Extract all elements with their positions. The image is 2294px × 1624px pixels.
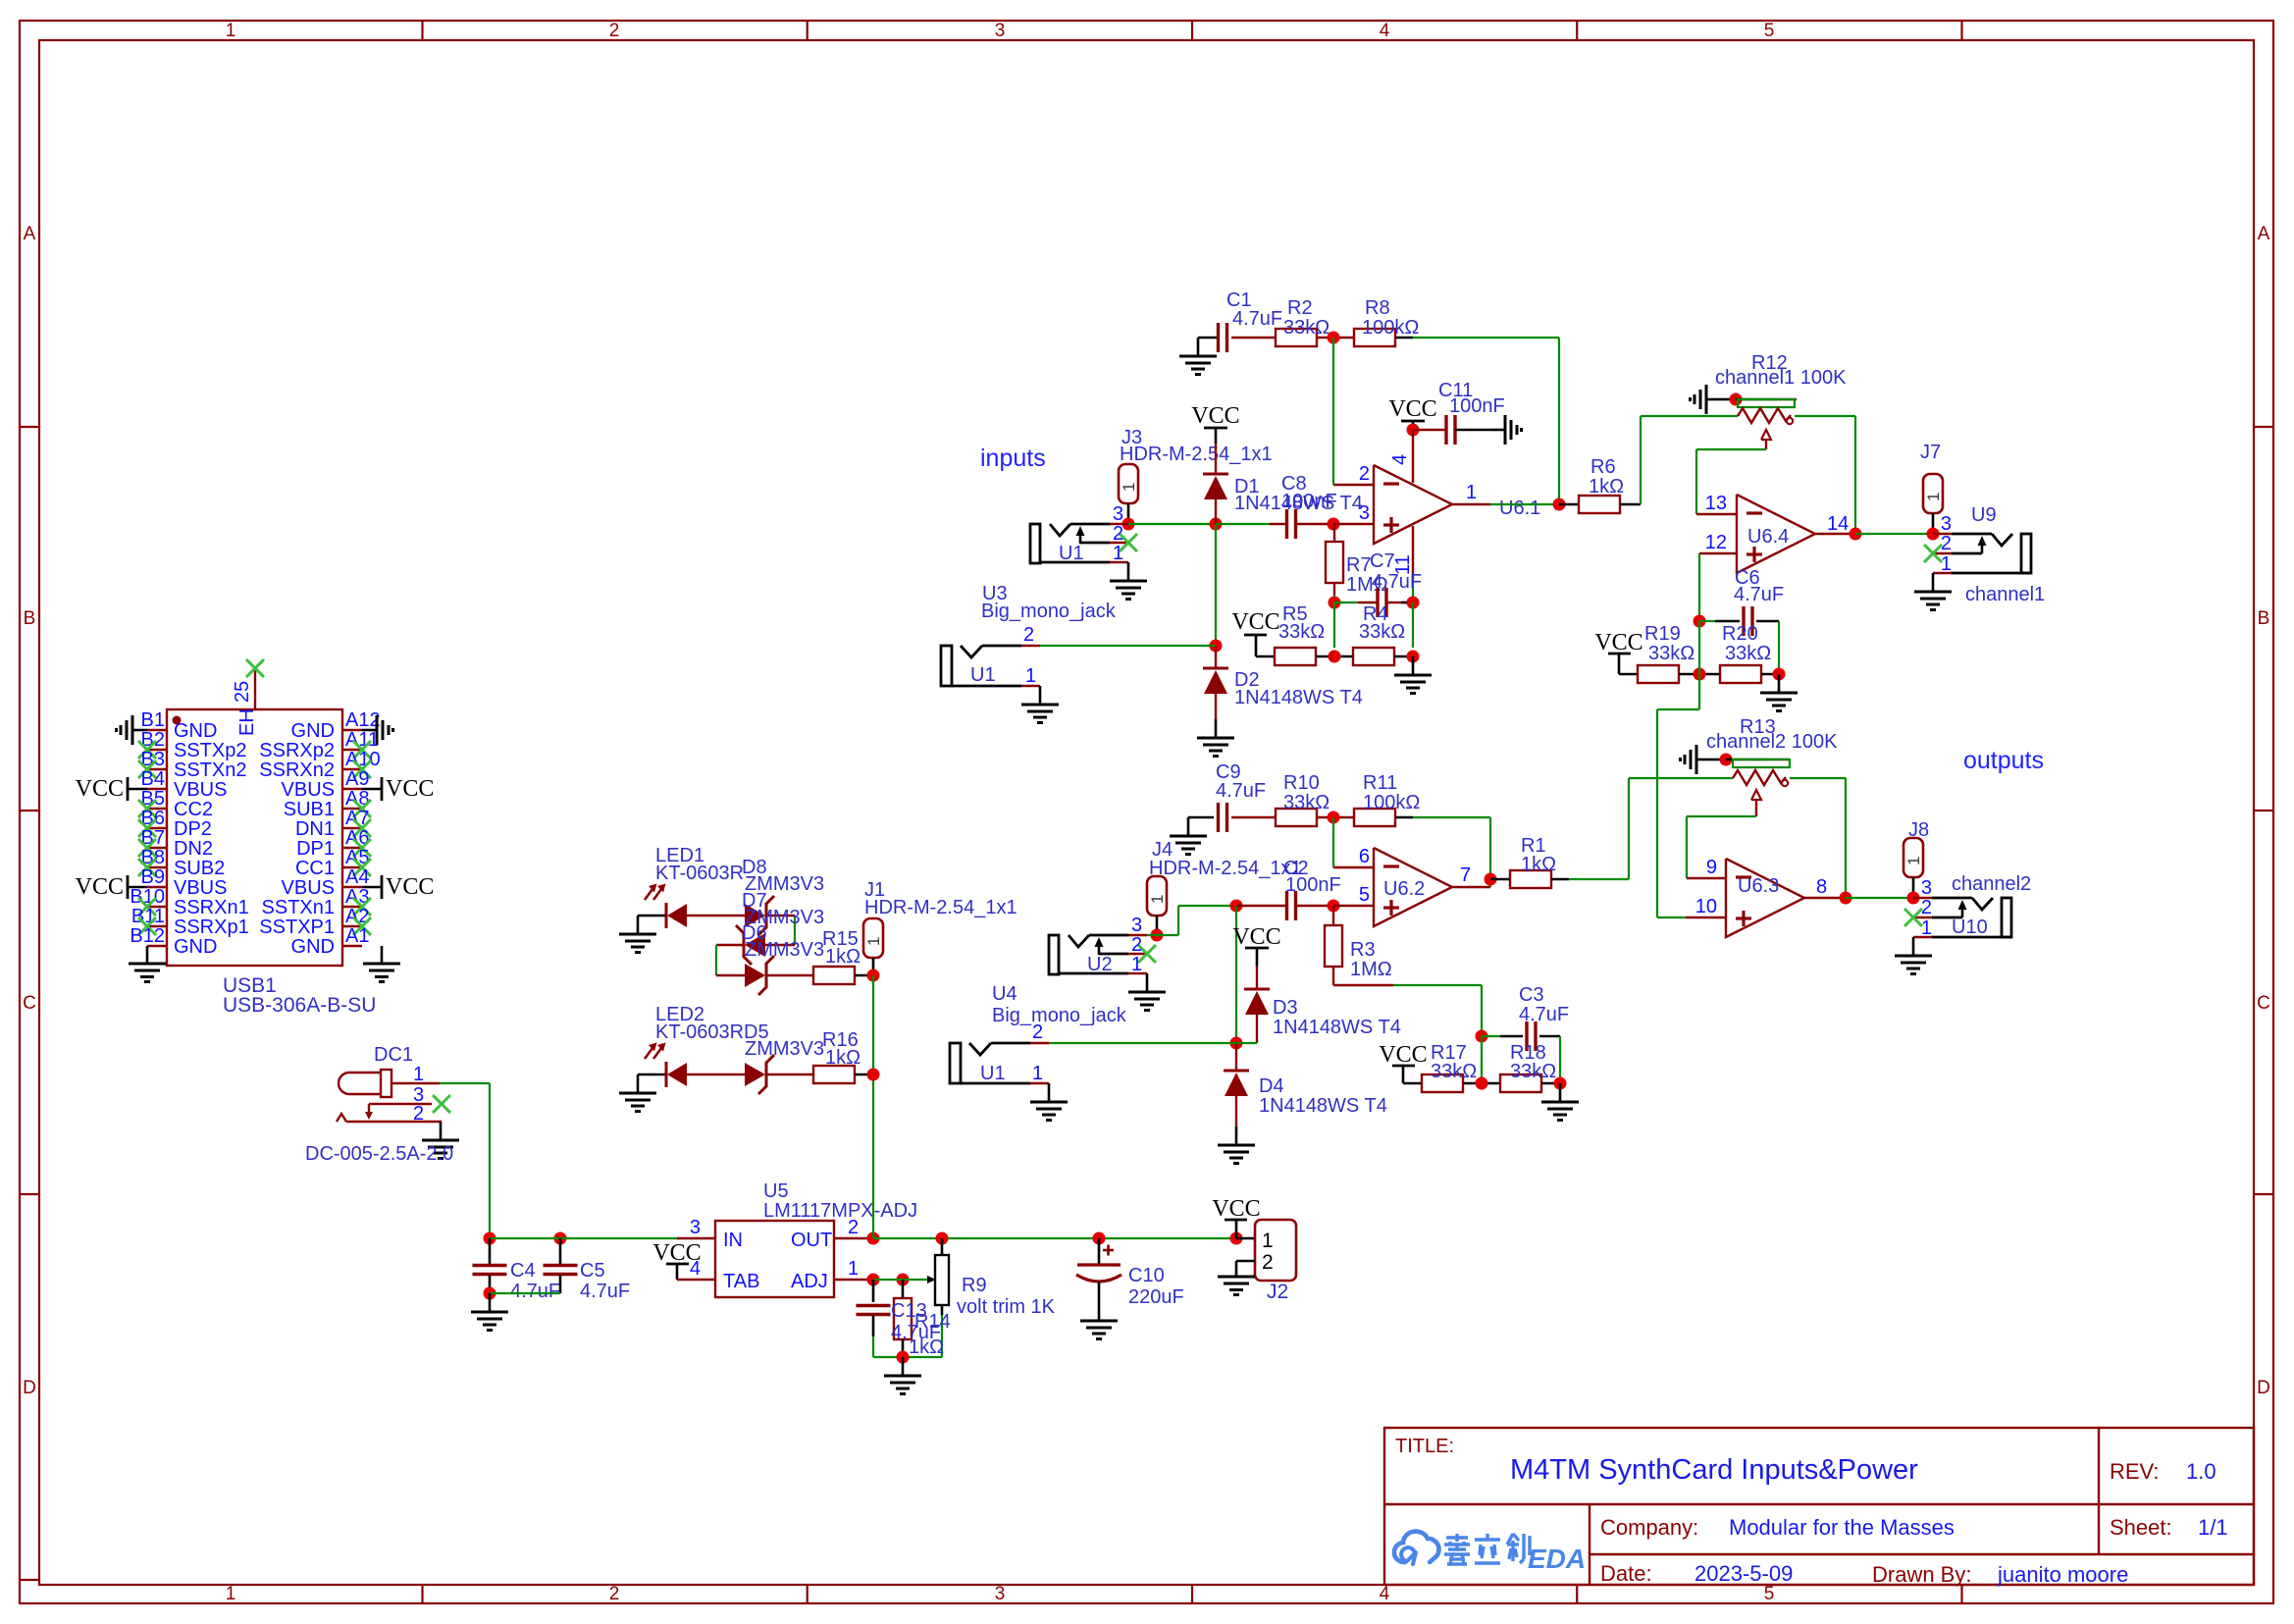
USB1 pin A9 VBUS [342, 788, 362, 790]
svg-text:3: 3 [1941, 513, 1952, 535]
svg-text:ZMM3V3: ZMM3V3 [745, 1038, 824, 1060]
column ticks top/bottom [421, 21, 423, 40]
node C4 bottom junction [484, 1287, 496, 1300]
U6.3 pin10 wire [1657, 917, 1686, 918]
svg-text:KT-0603R: KT-0603R [655, 1022, 744, 1043]
LED LED2 [638, 1074, 666, 1076]
IC U5 LM1117MPX-ADJ body [715, 1221, 834, 1297]
wire J1 bus down [872, 975, 874, 1238]
resistor R18 [1500, 1074, 1541, 1092]
USB1 pin A11 SSRXp2 [342, 749, 362, 751]
node J2 junction [1230, 1232, 1243, 1245]
svg-text:4.7uF: 4.7uF [1519, 1004, 1569, 1025]
svg-text:4.7uF: 4.7uF [1734, 584, 1784, 605]
node C10 junction [1093, 1232, 1106, 1245]
svg-text:U6.1: U6.1 [1499, 498, 1540, 519]
ground U9 jack [1932, 573, 1935, 592]
svg-text:B12: B12 [130, 925, 165, 947]
svg-text:VCC: VCC [386, 874, 434, 900]
svg-text:2: 2 [609, 1584, 620, 1604]
resistor R4 [1353, 648, 1394, 665]
node C2 left junction [1230, 900, 1243, 913]
DC1 pin 1 [391, 1082, 440, 1084]
svg-text:1kΩ: 1kΩ [909, 1336, 944, 1358]
opamp U6.1 pin3 wire [1333, 523, 1374, 525]
svg-text:A4: A4 [345, 866, 369, 888]
node J7 junction [1927, 528, 1940, 541]
wire C4-C5 top [490, 1237, 677, 1239]
svg-text:4: 4 [690, 1258, 701, 1280]
svg-text:R7: R7 [1346, 554, 1372, 576]
wire R2-R8 [1317, 337, 1354, 339]
svg-text:C3: C3 [1519, 984, 1544, 1006]
U6.3 output pin8 [1804, 897, 1846, 899]
node U6.3 output junction [1840, 892, 1852, 905]
row ticks left/right [20, 426, 39, 428]
resistor R3 [1332, 906, 1334, 925]
svg-text:33kΩ: 33kΩ [1283, 792, 1329, 813]
svg-text:1: 1 [1148, 895, 1167, 904]
ground U4 jack [1048, 1083, 1051, 1102]
svg-text:6: 6 [1359, 846, 1370, 867]
svg-text:VCC: VCC [76, 874, 124, 900]
node U6.1 output junction [1553, 498, 1566, 511]
svg-text:VCC: VCC [1379, 1042, 1427, 1068]
svg-text:R10: R10 [1283, 772, 1320, 794]
svg-text:U6.2: U6.2 [1383, 878, 1425, 900]
svg-text:2: 2 [1921, 897, 1932, 918]
svg-text:GND: GND [291, 720, 335, 742]
node R20 right junction [1761, 673, 1779, 676]
ground ADJ network [902, 1357, 905, 1376]
ground U10 jack [1912, 937, 1915, 956]
svg-text:33kΩ: 33kΩ [1510, 1061, 1556, 1082]
USB1 A4 VCC [362, 886, 382, 889]
node C8/R7 junction [1328, 518, 1340, 531]
svg-text:GND: GND [174, 720, 217, 742]
svg-text:220uF: 220uF [1128, 1286, 1184, 1308]
svg-text:R19: R19 [1644, 623, 1681, 645]
wire U6.3 output to J8 [1846, 897, 1913, 899]
svg-text:VCC: VCC [1388, 396, 1436, 422]
capacitor C7 [1334, 602, 1358, 603]
capacitor C2 [1236, 905, 1286, 907]
USB1 A1 ground [381, 946, 384, 964]
svg-text:4.7uF: 4.7uF [1232, 308, 1282, 330]
ground C9 [1188, 816, 1214, 819]
svg-text:1N4148WS T4: 1N4148WS T4 [1234, 687, 1363, 708]
ground C1 [1198, 337, 1218, 340]
resistor R5 [1275, 648, 1316, 665]
svg-text:3: 3 [690, 1217, 701, 1238]
svg-text:D: D [23, 1378, 36, 1398]
svg-text:U1: U1 [970, 664, 996, 686]
svg-text:9: 9 [1706, 857, 1717, 878]
svg-text:4: 4 [1389, 454, 1411, 465]
wire node A down to R19/R20 [1698, 621, 1700, 674]
wire C2 node down to D3/D4 [1235, 906, 1237, 1043]
ground U1 jack [1127, 562, 1130, 581]
svg-text:2: 2 [1113, 523, 1123, 545]
node VCC-in junction C4 [484, 1232, 496, 1245]
svg-text:4.7uF: 4.7uF [1216, 780, 1266, 802]
capacitor C3 [1482, 1035, 1500, 1037]
svg-text:R9: R9 [962, 1275, 987, 1296]
svg-text:U6.4: U6.4 [1747, 526, 1789, 548]
diode D3 1N4148WS [1256, 966, 1258, 989]
USB1 pin B1 GND [147, 729, 167, 731]
resistor R2 [1231, 337, 1276, 339]
USB1 B12 ground [146, 946, 149, 964]
capacitor C9 [1217, 803, 1220, 832]
jack U10 channel2 output [1913, 897, 1932, 899]
capacitor C13 [872, 1280, 875, 1302]
node R5/R4 junction [1316, 655, 1353, 658]
node C7 right junction [1407, 597, 1420, 609]
svg-text:3: 3 [1921, 877, 1932, 899]
svg-text:U4: U4 [992, 983, 1017, 1005]
svg-text:3: 3 [1113, 503, 1123, 525]
svg-text:VCC: VCC [1191, 403, 1239, 429]
U6.4 pin12 wire [1699, 552, 1737, 554]
svg-text:2: 2 [1941, 533, 1952, 554]
wire jack U4 node [1236, 1042, 1257, 1044]
USB1 pin B3 SSTXn2 [147, 768, 167, 770]
svg-text:33kΩ: 33kΩ [1431, 1061, 1477, 1082]
node R19/R20 junction [1679, 673, 1720, 676]
capacitor C5 [559, 1238, 562, 1266]
node R2/R8 junction [1328, 332, 1340, 344]
ground LED2 [637, 1074, 640, 1093]
U5 pin 1 ADJ [834, 1279, 873, 1281]
svg-text:A9: A9 [345, 768, 369, 790]
svg-text:A12: A12 [345, 709, 381, 731]
svg-text:7: 7 [1460, 864, 1471, 886]
svg-text:1MΩ: 1MΩ [1350, 959, 1392, 980]
svg-text:VBUS: VBUS [282, 779, 335, 801]
U5 pin 3 IN [677, 1237, 715, 1239]
svg-text:U1: U1 [1059, 543, 1084, 564]
node J4 junction [1151, 929, 1164, 942]
wire ADJ to R9 wiper [873, 1279, 927, 1281]
ground R18 [1559, 1083, 1562, 1102]
svg-text:1: 1 [848, 1258, 859, 1280]
svg-text:Date:: Date: [1600, 1561, 1652, 1586]
wire R13 wiper to U6.3 pin9 [1687, 815, 1756, 817]
svg-text:R20: R20 [1722, 623, 1758, 645]
wire U2 to C2 [1147, 934, 1157, 936]
wire R1 to pot R13 [1569, 878, 1629, 880]
svg-text:SSTXp2: SSTXp2 [174, 740, 246, 761]
svg-text:SUB2: SUB2 [174, 858, 225, 879]
USB1 pin A2 SSTXP1 [342, 925, 362, 927]
U6.1 output pin1 [1452, 503, 1490, 505]
svg-text:SSRXn1: SSRXn1 [174, 897, 249, 918]
svg-text:2: 2 [413, 1103, 424, 1125]
svg-text:DP1: DP1 [296, 838, 335, 860]
svg-text:M4TM SynthCard Inputs&Power: M4TM SynthCard Inputs&Power [1510, 1454, 1918, 1486]
svg-text:HDR-M-2.54_1x1: HDR-M-2.54_1x1 [864, 897, 1017, 918]
USB1 pin B2 SSTXp2 [147, 749, 167, 751]
title block frame [1384, 1428, 2254, 1585]
connector DC1 barrel [339, 1073, 382, 1094]
svg-text:Drawn By:: Drawn By: [1872, 1562, 1971, 1587]
svg-text:C: C [2257, 993, 2270, 1014]
svg-text:C10: C10 [1128, 1265, 1165, 1286]
svg-text:VCC: VCC [386, 776, 434, 802]
svg-text:OUT: OUT [791, 1230, 832, 1251]
svg-text:1kΩ: 1kΩ [1521, 854, 1556, 875]
wire U6.4 pin12 to node [1698, 553, 1700, 621]
svg-text:33kΩ: 33kΩ [1283, 317, 1329, 339]
svg-text:1kΩ: 1kΩ [1589, 476, 1624, 498]
svg-text:1: 1 [1262, 1230, 1274, 1252]
svg-text:HDR-M-2.54_1x1: HDR-M-2.54_1x1 [1120, 444, 1273, 465]
svg-text:33kΩ: 33kΩ [1278, 621, 1325, 643]
USB1 B4 VCC [128, 788, 147, 791]
USB1 pin B8 SUB2 [147, 866, 167, 868]
capacitor C6 [1699, 620, 1715, 622]
svg-text:U2: U2 [1087, 954, 1113, 975]
ground U3 jack [1039, 686, 1042, 705]
wire C4-C5 bottom [490, 1292, 560, 1294]
svg-text:C: C [23, 993, 36, 1014]
J2 pin 2 ground [1236, 1260, 1255, 1263]
svg-text:VBUS: VBUS [174, 779, 227, 801]
trimmer R9 volt trim [941, 1238, 944, 1255]
wire DC1 to C4 [440, 1082, 490, 1084]
node ADJ junction R14 [897, 1274, 910, 1286]
svg-text:100nF: 100nF [1281, 491, 1337, 512]
svg-text:2: 2 [1262, 1251, 1274, 1274]
node bottom rail junction [897, 1351, 910, 1364]
svg-text:1kΩ: 1kΩ [825, 1047, 860, 1069]
svg-text:KT-0603R: KT-0603R [655, 863, 744, 884]
svg-text:Big_mono_jack: Big_mono_jack [981, 601, 1117, 622]
svg-text:juanito moore: juanito moore [1997, 1562, 2128, 1587]
svg-text:A: A [2258, 224, 2270, 244]
wire J3 to D1 node [1128, 523, 1216, 525]
diode D1 1N4148WS [1215, 444, 1217, 474]
svg-text:SSTXn1: SSTXn1 [262, 897, 335, 918]
svg-text:13: 13 [1705, 493, 1727, 514]
svg-text:U5: U5 [763, 1180, 789, 1202]
ground R4 [1412, 656, 1415, 675]
svg-text:DN2: DN2 [174, 838, 213, 860]
node R17/R18 junction [1463, 1082, 1500, 1085]
svg-text:A1: A1 [345, 925, 369, 947]
svg-text:DC-005-2.5A-2.0: DC-005-2.5A-2.0 [305, 1143, 453, 1165]
svg-text:1: 1 [1120, 483, 1138, 492]
U6.1 pin11 [1412, 526, 1414, 579]
svg-text:1: 1 [1032, 1063, 1043, 1084]
svg-text:4.7uF: 4.7uF [510, 1281, 560, 1302]
svg-text:5: 5 [1764, 1584, 1775, 1604]
wire C6 right down [1778, 621, 1780, 674]
wire D7 to D6 [716, 944, 744, 946]
USB1 pin A10 SSRXn2 [342, 768, 362, 770]
svg-text:U6.3: U6.3 [1738, 875, 1779, 897]
USB1 pin A7 DN1 [342, 827, 362, 829]
svg-text:EDA: EDA [1528, 1544, 1586, 1574]
USB1 A12 ground [362, 729, 377, 732]
svg-text:Sheet:: Sheet: [2110, 1515, 2172, 1540]
svg-text:B4: B4 [141, 768, 165, 790]
DC1 pin 2 [337, 1114, 346, 1122]
jack U9 channel1 output [1933, 533, 1952, 535]
svg-text:1: 1 [1941, 553, 1952, 575]
svg-text:100kΩ: 100kΩ [1363, 792, 1420, 813]
USB1 pin B5 CC2 [147, 808, 167, 810]
resistor R1 [1490, 878, 1510, 881]
svg-text:100nF: 100nF [1285, 874, 1341, 896]
svg-text:3: 3 [1359, 502, 1370, 524]
svg-text:channel1: channel1 [1965, 584, 2045, 605]
node R4 right junction [1394, 655, 1413, 658]
U5 pin 2 OUT [834, 1237, 873, 1239]
svg-text:DP2: DP2 [174, 818, 212, 840]
capacitor C4 [489, 1238, 492, 1266]
svg-text:DC1: DC1 [374, 1044, 413, 1066]
svg-text:2: 2 [1359, 463, 1370, 485]
wire R12 right to output [1795, 415, 1855, 417]
wire ADJ bottom rail [873, 1356, 942, 1358]
opamp U6.1 pin2 wire [1333, 484, 1374, 486]
resistor R16 [766, 1074, 813, 1075]
node ADJ junction C13 [867, 1274, 880, 1286]
svg-text:B: B [24, 608, 36, 629]
ground LED1 [637, 916, 640, 934]
svg-text:B1: B1 [141, 709, 165, 731]
resistor R7 [1333, 524, 1335, 542]
svg-text:100kΩ: 100kΩ [1362, 317, 1419, 339]
svg-text:C4: C4 [510, 1260, 536, 1282]
node J3 junction [1122, 518, 1135, 531]
zener D8 [745, 904, 765, 927]
wire U3 to D2 node [1040, 645, 1216, 647]
DC1 pin2 ground [440, 1122, 443, 1140]
svg-text:12: 12 [1705, 532, 1727, 553]
op-amp U6.2 [1374, 848, 1452, 926]
svg-text:1: 1 [864, 937, 883, 946]
capacitor C8 [1216, 523, 1270, 525]
svg-text:ADJ: ADJ [791, 1271, 828, 1292]
ground R20 [1778, 674, 1781, 693]
svg-text:33kΩ: 33kΩ [1648, 643, 1694, 664]
svg-text:R3: R3 [1350, 939, 1376, 961]
svg-text:Modular for the Masses: Modular for the Masses [1729, 1515, 1955, 1540]
svg-text:inputs: inputs [980, 445, 1046, 472]
svg-text:100nF: 100nF [1449, 395, 1505, 417]
node J8 junction [1907, 892, 1920, 905]
U6.2 pin5 wire [1333, 905, 1374, 907]
wire R13 right to output [1790, 777, 1846, 779]
svg-text:Company:: Company: [1600, 1515, 1698, 1540]
wire R8 to opamp loop [1395, 337, 1413, 340]
wire R3 to C3 node [1333, 984, 1393, 986]
wire R11 to loop [1395, 816, 1413, 819]
wire D8 to D7 [766, 915, 795, 917]
svg-text:4: 4 [1380, 1584, 1390, 1604]
svg-text:C7: C7 [1370, 550, 1395, 572]
USB1 pin A6 DP1 [342, 847, 362, 849]
resistor R11 [1354, 809, 1395, 826]
wire D1 node down to D2 [1215, 524, 1217, 646]
USB1 B9 VCC [128, 886, 147, 889]
resistor R19 [1638, 665, 1679, 683]
node R10/R11 junction [1328, 812, 1340, 824]
node C2/R3 junction [1328, 900, 1340, 913]
op-amp U6.3 [1726, 859, 1804, 937]
wire U6.4 output to J7 [1855, 533, 1933, 535]
node R16 junction [867, 1069, 880, 1081]
svg-text:A11: A11 [345, 729, 379, 751]
ground U2 jack [1146, 973, 1149, 992]
resistor R17 [1422, 1074, 1463, 1092]
USB1 pin A12 GND [342, 729, 362, 731]
USB1 pin A4 VBUS [342, 886, 362, 888]
svg-text:DN1: DN1 [295, 818, 335, 840]
USB1 pin B4 VBUS [147, 788, 167, 790]
svg-text:1: 1 [1921, 917, 1932, 939]
USB1 pin 25 EH [254, 670, 256, 709]
svg-text:channel2 100K: channel2 100K [1706, 731, 1838, 753]
connector J1 [863, 918, 883, 958]
wire C3 right down [1559, 1036, 1561, 1083]
node junction C5 [554, 1232, 567, 1245]
svg-text:GND: GND [174, 936, 217, 958]
svg-text:SUB1: SUB1 [284, 799, 335, 820]
USB1 pin A3 SSTXn1 [342, 906, 362, 908]
node C6 left junction [1694, 615, 1706, 628]
wire R12 wiper to U6.4 pin13 [1696, 448, 1766, 450]
svg-text:C5: C5 [580, 1260, 605, 1282]
USB1 A9 VCC [362, 788, 382, 791]
svg-text:4: 4 [1380, 21, 1390, 41]
svg-text:2: 2 [1131, 934, 1142, 956]
svg-text:R11: R11 [1363, 772, 1397, 794]
wire C3 node down [1481, 1036, 1483, 1083]
jack U2 channel2 input [1049, 935, 1059, 974]
resistor R8 [1354, 329, 1395, 346]
svg-text:VCC: VCC [76, 776, 124, 802]
svg-text:VCC: VCC [1232, 924, 1280, 950]
wire R8 node to pin2 [1332, 338, 1334, 485]
svg-text:B: B [2258, 608, 2270, 629]
capacitor C10 220uF [1098, 1238, 1101, 1264]
node R18 right junction [1541, 1082, 1560, 1085]
svg-text:1: 1 [1025, 665, 1036, 687]
svg-text:8: 8 [1816, 876, 1827, 898]
node C3 left junction [1476, 1030, 1488, 1043]
svg-text:1: 1 [226, 21, 236, 41]
svg-text:HDR-M-2.54_1x1: HDR-M-2.54_1x1 [1149, 858, 1302, 879]
resistor R15 [766, 974, 813, 976]
diode D2 1N4148WS [1215, 646, 1217, 668]
svg-text:1/1: 1/1 [2198, 1515, 2228, 1540]
node OUT junction [867, 1232, 880, 1245]
svg-text:3: 3 [1131, 915, 1142, 936]
svg-text:1: 1 [1924, 493, 1943, 501]
svg-text:D3: D3 [1273, 997, 1298, 1019]
svg-text:25: 25 [232, 681, 253, 703]
svg-text:TITLE:: TITLE: [1395, 1436, 1454, 1457]
svg-text:2: 2 [609, 21, 620, 41]
zener D7 [745, 933, 765, 957]
svg-text:5: 5 [1359, 884, 1370, 906]
svg-text:CC2: CC2 [174, 799, 213, 820]
svg-text:1: 1 [1904, 857, 1923, 865]
